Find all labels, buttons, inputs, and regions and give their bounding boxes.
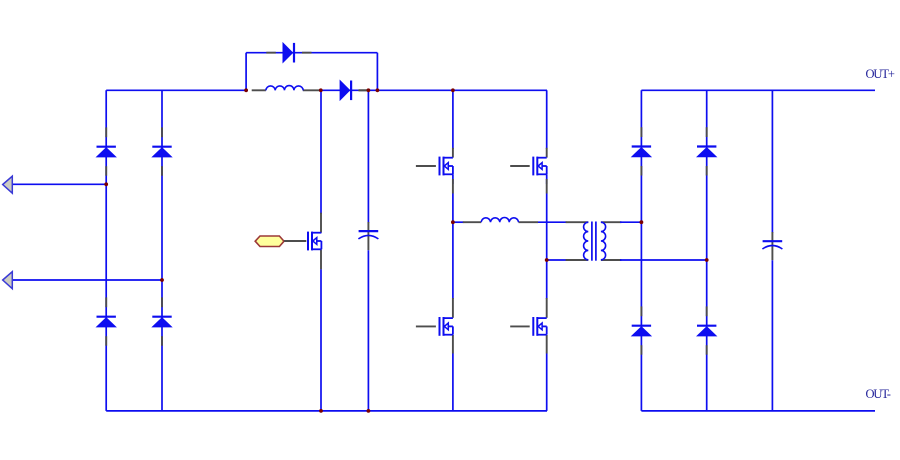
pin Q2 drain [452,148,454,158]
wire output rectifier right leg [706,90,708,411]
wire output rectifier left leg [640,90,642,411]
bridge diode D4 [152,297,171,345]
bridge diode D3 [97,297,116,345]
pin Q5 drain [546,298,548,318]
PFC mosfet Q1 [304,232,321,251]
wire bypass right riser [376,53,378,91]
wire bottom rail main [106,410,547,412]
pin inductor L2 right [519,221,539,223]
wire C2 top [771,90,773,233]
pin Q2 source [452,179,454,194]
bridge mosfet Q4 [416,317,453,336]
wire top rail output section [641,89,875,91]
pin Q4 drain [452,298,454,318]
bridge mosfet Q3 [510,157,547,176]
junction Q1 source bottom rail [319,409,323,413]
wire port to Q1 gate [284,240,306,242]
pin lead diode D6 right [358,89,368,91]
pin transformer secondary bottom [601,259,622,261]
junction Q1 drain rail [319,88,323,92]
label OUT+ [866,67,895,81]
wire bridge right rail top [546,90,548,149]
bridge diode D2 [152,127,171,175]
junction bypass right [376,88,380,92]
wire top rail left section [106,89,248,91]
wire top rail mid section [319,89,547,91]
junction secondary top node [640,220,644,224]
wire C2 bottom [771,260,773,411]
pin transformer secondary top [601,221,622,223]
wire Q1 drain from top rail [320,90,322,214]
pin transformer primary top [566,221,589,223]
input terminal arrow J2 [3,272,13,289]
wire Q1 source to bottom rail [320,269,322,411]
pin Q1 drain [320,213,322,233]
junction bridge right mid node [545,258,549,262]
label OUT- [866,387,891,401]
wire bridge left rail bottom [452,354,454,411]
wire bypass left riser [245,53,247,91]
junction input live node [104,182,108,186]
wire bridge mid left [453,221,464,223]
wire bridge right rail bottom [546,354,548,411]
pin C1 [367,222,369,250]
transformer T1 secondary winding [601,222,606,260]
wire bridge left rail middle [452,194,454,300]
svg-text:OUT+: OUT+ [866,67,895,81]
pin lead inductor L1 right [303,89,320,91]
wire Q2 source segment [452,174,454,184]
wire input neutral [12,279,162,281]
output diode D9 [632,306,651,354]
junction C1 top rail [367,88,371,92]
pin lead inductor L1 left [252,89,266,91]
output diode D7 [632,127,651,175]
pin transformer primary bottom [566,259,589,261]
wire bridge right rail middle [546,194,548,300]
bridge diode D1 [97,127,116,175]
pin inductor L2 left [463,221,481,223]
wire bypass top [246,52,377,54]
junction secondary bottom node [705,258,709,262]
wire primary bottom to bridge [547,259,567,261]
svg-text:OUT-: OUT- [866,387,891,401]
pin C2 [771,232,773,260]
pin Q3 source [546,179,548,194]
pin Q1 source [320,249,322,269]
junction bypass left [244,88,248,92]
wire input live [12,183,106,185]
pin Q3 drain [546,148,548,158]
junction bridge left rail top [451,88,455,92]
pin Q5 source [546,335,548,354]
PFC inductor L1 [266,86,303,91]
junction bridge left mid node [451,220,455,224]
wire C1 top [367,90,369,223]
wire secondary top to rectifier [620,221,641,223]
output capacitor C2 [762,241,782,249]
output diode D10 [697,306,716,354]
boost diode D6 [340,81,369,101]
wire secondary bottom to rectifier [620,259,707,261]
wire C1 bottom [367,250,369,411]
resonant inductor L2 [481,217,518,222]
transformer T1 primary winding [584,222,589,260]
gate port label [255,236,284,247]
junction C1 bottom rail [367,409,371,413]
transformer T1 core [592,222,596,261]
wire bottom rail output [641,410,875,412]
wire L2 to transformer [538,221,567,223]
bypass diode D5 [266,43,311,63]
bridge mosfet Q5 [510,317,547,336]
wire Q3 source segment [546,174,548,184]
bulk capacitor C1 [358,231,378,239]
output diode D8 [697,127,716,175]
wire bridge left rail top [452,90,454,149]
wire input bridge left leg [105,90,107,411]
wire input bridge right leg [161,90,163,411]
junction input neutral node [160,278,164,282]
bridge mosfet Q2 [416,157,453,176]
pin Q4 source [452,335,454,354]
input terminal arrow J1 [3,176,13,193]
